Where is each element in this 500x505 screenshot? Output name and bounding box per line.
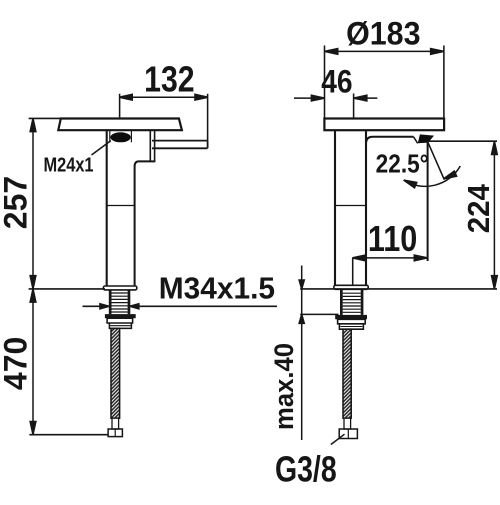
spout top plate (front view)	[58, 119, 182, 131]
stem left edge (side view)	[334, 130, 336, 285]
spout housing right edge	[427, 142, 429, 261]
hose end fitting (side view)	[339, 429, 357, 439]
nut skirt (side view)	[338, 319, 366, 329]
svg-text:M34x1.5: M34x1.5	[159, 272, 275, 305]
dimension 46 extension line	[353, 94, 355, 119]
lever (side view, black wedge)	[418, 134, 434, 143]
dimension D183 line	[325, 50, 444, 52]
body joint line	[107, 205, 135, 207]
svg-text:G3/8: G3/8	[275, 448, 337, 489]
nut skirt (front view)	[107, 318, 133, 328]
extension line mounting surface (front view)	[29, 288, 105, 290]
mounting nut (side view)	[335, 315, 367, 319]
thread hatch lines	[112, 293, 128, 312]
extension line hose end	[29, 434, 108, 436]
body right contour with step	[135, 161, 156, 286]
svg-text:224: 224	[462, 184, 496, 233]
dimension D183 extension lines	[325, 46, 444, 119]
notch for lever	[413, 137, 417, 144]
extension line top of faucet	[29, 117, 61, 119]
svg-text:Ø183: Ø183	[346, 16, 420, 52]
aerator (black outlet)	[110, 132, 130, 142]
svg-text:max.40: max.40	[268, 343, 299, 430]
threaded shank (side view)	[340, 290, 363, 315]
svg-text:257: 257	[0, 176, 34, 229]
M24x1 leader line	[92, 141, 111, 155]
svg-text:22.5°: 22.5°	[376, 150, 429, 179]
dimension 257 line	[32, 118, 34, 289]
dimension 132 line	[120, 96, 208, 98]
stem right edge / housing left edge	[365, 130, 367, 285]
dimension M34x1.5 leader arrows	[83, 305, 278, 307]
extension line lever pivot	[429, 140, 497, 142]
angle arc	[404, 166, 461, 186]
svg-text:46: 46	[321, 65, 352, 100]
dimension max.40 line	[301, 266, 303, 441]
extension line mounting surface (side view)	[300, 288, 497, 290]
dimension 110 line	[352, 257, 427, 259]
lever swing line 22.5 degrees	[428, 142, 445, 180]
body left edge	[106, 130, 108, 286]
svg-text:470: 470	[0, 337, 34, 390]
dimension 132 extension lines	[120, 94, 208, 141]
extension line nut top (clamping)	[300, 313, 338, 315]
svg-text:110: 110	[368, 220, 417, 260]
base flange (side view)	[334, 285, 368, 289]
svg-text:132: 132	[144, 60, 194, 100]
G3/8 leader line	[331, 434, 345, 444]
flexible hose (front view)	[111, 328, 120, 418]
thread hatch lines (side view)	[343, 293, 361, 312]
aerator bracket	[110, 131, 132, 142]
spout top plate (side view)	[324, 119, 444, 131]
spout housing top edge with rounded corner	[366, 137, 413, 144]
dimension 110 extension line	[352, 258, 354, 285]
dimension 224 line	[493, 141, 495, 289]
threaded shank (front view)	[109, 290, 131, 314]
mounting nut (front view)	[105, 314, 136, 318]
stem joint line (side view)	[335, 205, 366, 207]
cartridge housing seam lines	[150, 130, 154, 161]
svg-text:M24x1: M24x1	[43, 153, 93, 176]
flexible hose (side view)	[343, 329, 351, 418]
hose end ferrule (side view)	[344, 418, 351, 429]
hose end fitting G3/8 (front view)	[108, 429, 122, 437]
dimension 46 arrows (outside)	[294, 97, 377, 99]
hose end ferrule (front view)	[112, 418, 119, 429]
dimension 470 line	[32, 289, 34, 435]
mixer lever (front view)	[152, 141, 208, 149]
base flange (front view)	[103, 286, 136, 290]
